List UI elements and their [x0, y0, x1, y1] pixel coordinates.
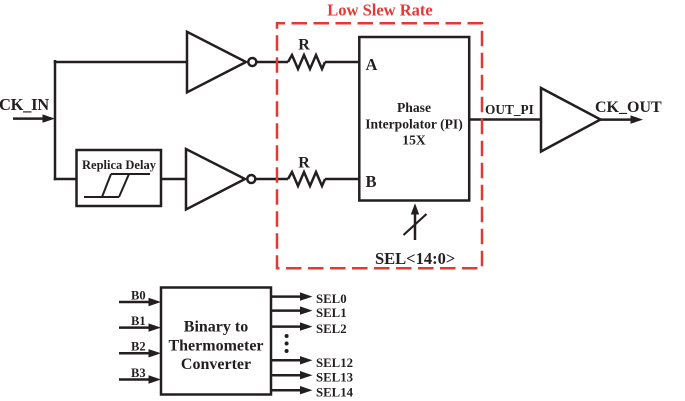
wire output SEL14 [271, 386, 313, 394]
svg-text:Converter: Converter [181, 356, 251, 373]
wire input B2 [119, 349, 161, 357]
svg-text:SEL2: SEL2 [316, 322, 347, 336]
wire output SEL12 [271, 356, 313, 364]
wire R1 to PI pin A [325, 61, 359, 64]
svg-text:B3: B3 [131, 366, 146, 380]
svg-text:SEL12: SEL12 [316, 356, 353, 370]
bus slash [404, 214, 427, 235]
svg-text:B1: B1 [131, 314, 146, 328]
replica delay block [77, 150, 162, 206]
resistor R2 [288, 172, 325, 186]
wire output SEL13 [271, 371, 313, 379]
wire input vertical trunk [54, 60, 57, 180]
wire Replica Delay to inverter U2 [161, 178, 186, 181]
wire U1 output to R1 [256, 61, 288, 64]
buffer U4 (output driver) [541, 88, 601, 152]
svg-text:OUT_PI: OUT_PI [485, 102, 534, 117]
svg-text:CK_OUT: CK_OUT [595, 99, 662, 116]
svg-text:SEL14: SEL14 [316, 386, 354, 400]
wire U2 output to R2 [255, 178, 288, 181]
wire output SEL2 [271, 322, 313, 330]
svg-text:Interpolator (PI): Interpolator (PI) [365, 117, 463, 133]
svg-text:Phase: Phase [397, 100, 431, 115]
wire R2 to PI pin B [325, 178, 359, 181]
inverter U1 (top) [187, 32, 256, 93]
svg-text:B: B [366, 172, 377, 191]
svg-text:R: R [298, 37, 310, 54]
ellipsis dots between SEL2 and SEL12 [285, 334, 289, 353]
wire CK_OUT output arrow [601, 115, 644, 123]
wire CK_IN input arrow [13, 114, 55, 122]
svg-text:Binary to: Binary to [184, 319, 248, 336]
wire OUT_PI [469, 118, 542, 121]
wire output SEL0 [271, 292, 313, 300]
svg-text:Thermometer: Thermometer [168, 337, 263, 354]
svg-text:SEL1: SEL1 [316, 306, 347, 320]
label Phase Interpolator (PI) 15X [365, 100, 463, 148]
svg-text:A: A [366, 55, 378, 74]
inverter U2 (bottom) [186, 149, 255, 210]
wire bottom branch to Replica Delay [54, 178, 77, 181]
wire input B3 [119, 375, 161, 383]
svg-text:Replica Delay: Replica Delay [82, 158, 157, 172]
wire top branch to inverter U1 [54, 61, 187, 64]
svg-text:B2: B2 [131, 340, 146, 354]
wire input B0 [119, 298, 161, 306]
wire output SEL1 [271, 306, 313, 314]
wire input B1 [119, 323, 161, 331]
bus SEL arrow into PI [404, 203, 427, 240]
svg-text:B0: B0 [131, 288, 146, 302]
hysteresis symbol inside replica delay [84, 174, 150, 197]
svg-text:R: R [298, 155, 310, 172]
box U5 Binary to Thermometer Converter [161, 288, 271, 395]
box U3 Phase Interpolator (PI) [359, 37, 469, 201]
label Binary to Thermometer Converter [168, 319, 263, 374]
svg-text:SEL13: SEL13 [316, 371, 353, 385]
svg-text:Low Slew Rate: Low Slew Rate [327, 1, 432, 20]
dashed region Low Slew Rate [277, 23, 482, 268]
svg-text:CK_IN: CK_IN [0, 95, 49, 114]
svg-text:15X: 15X [402, 133, 426, 148]
svg-text:SEL<14:0>: SEL<14:0> [375, 249, 455, 268]
svg-text:SEL0: SEL0 [316, 292, 347, 306]
resistor R1 [288, 55, 325, 69]
